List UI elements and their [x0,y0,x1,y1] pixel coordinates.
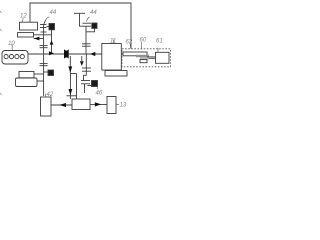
svg-text:60: 60 [140,38,147,44]
svg-text:10: 10 [8,41,15,47]
svg-text:12: 12 [20,14,27,20]
svg-text:42: 42 [47,92,54,98]
svg-text:13: 13 [120,103,127,109]
svg-text:62: 62 [126,40,133,46]
svg-text:44: 44 [90,10,97,16]
svg-text:46: 46 [96,91,103,97]
svg-text:11: 11 [110,39,116,45]
svg-text:44: 44 [50,10,57,16]
svg-text:61: 61 [156,39,163,45]
